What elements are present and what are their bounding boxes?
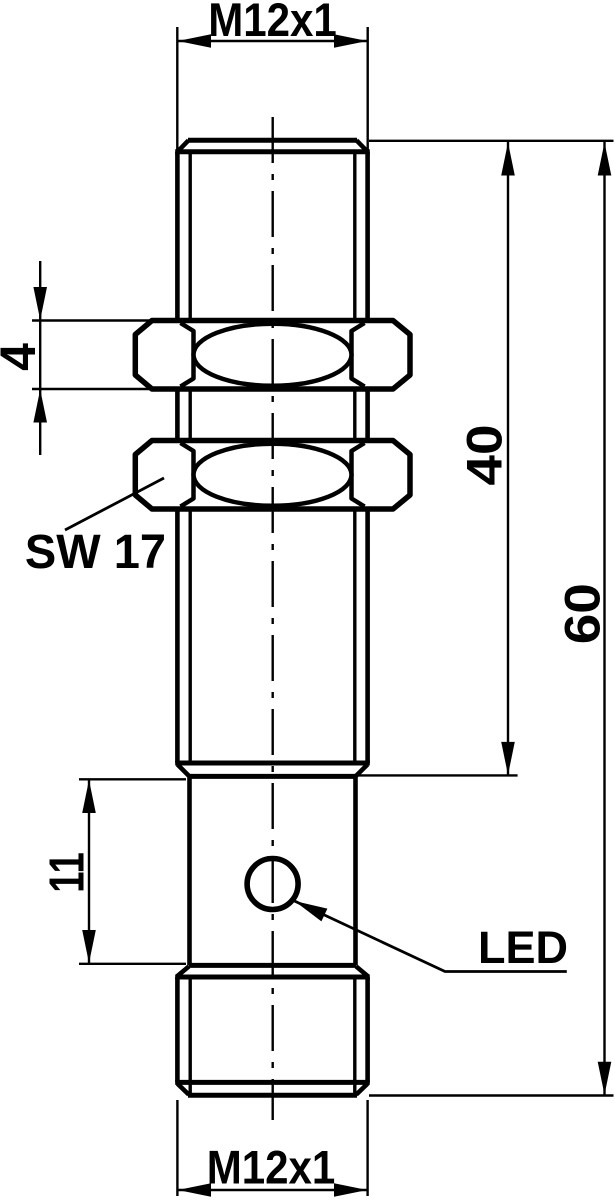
dim line <box>603 142 605 1095</box>
arrow down <box>82 930 96 963</box>
ext line left <box>176 1100 178 1196</box>
arrow right <box>334 34 367 48</box>
thread root right <box>353 154 356 762</box>
dimension M12x1 bottom <box>177 1100 367 1196</box>
bottom chamfer left <box>178 1084 189 1095</box>
dimension 40 <box>369 141 614 775</box>
hex nut 2 <box>135 441 410 510</box>
centerline <box>272 117 274 1120</box>
dimension M12x1 top <box>177 27 367 150</box>
sensor body: top threaded section M12 <box>175 140 370 776</box>
arrow right <box>334 1183 367 1197</box>
outer edge left <box>175 152 180 763</box>
LED leader line <box>295 901 567 972</box>
nut1 right facet <box>352 323 365 387</box>
ext line right <box>367 27 369 150</box>
arrow up <box>33 390 47 423</box>
thread runout line <box>175 1080 370 1085</box>
svg-text:M12x1: M12x1 <box>207 1142 336 1194</box>
thread root left <box>188 979 191 1094</box>
arrow down <box>598 1062 612 1095</box>
lower chamfer right <box>356 765 368 777</box>
top chamfer right <box>357 140 368 151</box>
dim line <box>177 40 367 42</box>
svg-text:SW 17: SW 17 <box>25 526 166 580</box>
nut2 center facet lens <box>194 444 352 506</box>
ext line bottom right <box>369 1094 614 1096</box>
outer edge left <box>175 977 180 1082</box>
bottom chamfer right <box>356 1084 367 1095</box>
arrow left <box>178 34 211 48</box>
thread root left <box>188 154 191 762</box>
nut2 left facet <box>181 443 194 507</box>
dimension 11 <box>79 779 186 964</box>
ext line left <box>176 27 178 150</box>
lower chamfer left <box>178 765 190 777</box>
dimension 60 <box>369 142 614 1096</box>
thread root right <box>353 979 356 1094</box>
arrow left <box>178 1183 211 1197</box>
step chamfer left <box>177 967 189 977</box>
top edge <box>188 138 357 143</box>
hex nut 1 <box>135 321 410 390</box>
step chamfer right <box>356 967 368 977</box>
ext line bottom <box>79 963 186 965</box>
nut2 right facet <box>352 443 365 507</box>
svg-text:11: 11 <box>40 852 95 892</box>
svg-text:40: 40 <box>457 424 513 485</box>
nut1 outline <box>135 321 410 390</box>
ext line bottom <box>32 388 166 390</box>
sensor body: bottom threaded section M12 <box>175 967 370 1096</box>
top chamfer left <box>178 140 189 151</box>
nut1 center facet lens <box>194 324 352 386</box>
thread shoulder line <box>175 975 370 980</box>
arrow up <box>501 143 515 176</box>
arrow down <box>501 742 515 775</box>
thread runout line <box>175 761 370 766</box>
dimension 4 (nut height) <box>32 261 166 455</box>
arrow down <box>33 287 47 320</box>
ext line right <box>366 1100 368 1196</box>
dim line <box>507 142 509 775</box>
ext line top <box>32 319 166 321</box>
bottom edge <box>188 1093 357 1098</box>
arrow up <box>598 143 612 176</box>
sensor body: housing section <box>189 776 357 965</box>
dim line <box>177 1189 367 1191</box>
ext line top right <box>369 140 614 142</box>
thread shoulder line <box>175 149 370 154</box>
housing bottom edge <box>189 963 357 968</box>
arrow up <box>82 780 96 813</box>
LED leader arrowhead <box>295 901 328 921</box>
SW 17 leader line <box>65 478 164 530</box>
housing right edge <box>353 776 358 965</box>
extension line 40 bottom <box>357 774 518 776</box>
svg-text:LED: LED <box>478 922 568 973</box>
extension line 11 top <box>79 778 186 780</box>
outer edge right <box>365 977 370 1082</box>
housing left edge <box>187 776 192 965</box>
dim line <box>39 261 41 455</box>
svg-text:M12x1: M12x1 <box>208 0 337 47</box>
svg-text:60: 60 <box>555 583 611 644</box>
outer edge right <box>365 152 370 763</box>
dim line <box>88 779 90 964</box>
nut1 left facet <box>181 323 194 387</box>
svg-text:4: 4 <box>0 343 46 371</box>
housing top edge <box>189 774 357 779</box>
nut2 outline <box>135 441 410 510</box>
LED hole <box>247 859 298 910</box>
